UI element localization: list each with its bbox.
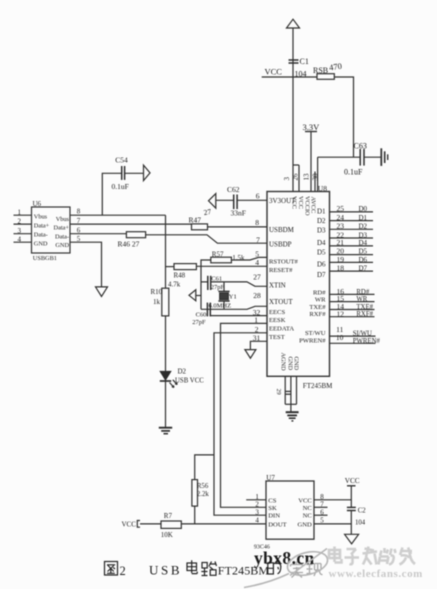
svg-text:5: 5 <box>320 517 324 525</box>
wire Vbus down to R10 <box>165 215 167 288</box>
U8 rotated power pin labels top <box>291 196 317 216</box>
IC U8 FT245BM body <box>267 192 330 377</box>
capacitor C60 27pF <box>192 303 210 327</box>
pin number 3 (rotated) <box>283 177 291 181</box>
port arrow left of C62 <box>209 194 216 209</box>
svg-text:EESK: EESK <box>269 317 286 324</box>
U6 inside labels right <box>54 216 70 249</box>
svg-text:RD#: RD# <box>356 289 369 296</box>
svg-text:8: 8 <box>77 208 81 216</box>
svg-text:29: 29 <box>275 389 281 395</box>
svg-text:Data-: Data- <box>55 234 69 241</box>
svg-text:WR: WR <box>315 297 326 304</box>
watermark 现 glyph grey <box>307 564 323 577</box>
U8 pin labels left column <box>269 197 299 341</box>
svg-text:D1: D1 <box>317 207 326 215</box>
svg-text:WR: WR <box>356 296 367 303</box>
resistor R56 2.2k <box>192 455 214 524</box>
earth ground below chip <box>286 412 299 421</box>
wire R57 to RSTOUT pin5 <box>231 257 267 260</box>
svg-text:D6: D6 <box>317 261 326 269</box>
pin number 30 (rotated) <box>312 173 320 181</box>
wire R46 to USBDP pin7 <box>146 235 267 243</box>
wire EEDATA pin2 to 93C46 DIN <box>214 333 267 515</box>
U8 pin labels right column <box>299 207 326 344</box>
svg-text:www.elecfans.com: www.elecfans.com <box>329 568 423 580</box>
caption 电 glyph <box>187 560 197 573</box>
watermark ybx8.cn <box>254 548 315 568</box>
svg-text:8: 8 <box>255 218 259 227</box>
svg-text:6: 6 <box>256 191 260 200</box>
svg-text:Vbus: Vbus <box>34 214 48 221</box>
svg-text:Y1: Y1 <box>229 294 237 301</box>
svg-text:USB: USB <box>149 562 182 577</box>
resistor RSB 470 <box>313 61 342 80</box>
svg-text:C54: C54 <box>115 155 128 164</box>
svg-text:USBDM: USBDM <box>269 226 295 234</box>
wire CS stub <box>246 499 266 501</box>
wire R47 to USBDM pin8 <box>208 226 268 228</box>
svg-text:DOUT: DOUT <box>268 521 286 528</box>
svg-text:R10: R10 <box>151 288 163 296</box>
svg-text:2: 2 <box>255 501 259 509</box>
svg-text:VCC: VCC <box>345 477 360 485</box>
U6 left pin stubs and numbers <box>14 208 32 243</box>
U7 left pin numbers <box>255 493 259 525</box>
part number FT245BM <box>303 382 333 390</box>
svg-text:GND: GND <box>298 521 313 528</box>
svg-text:D4: D4 <box>317 239 326 247</box>
svg-text:3: 3 <box>255 508 259 516</box>
wire C54 branch <box>102 173 121 215</box>
caption FT245BM <box>218 563 270 577</box>
svg-text:GND: GND <box>34 241 48 248</box>
svg-text:3: 3 <box>283 177 291 181</box>
svg-text:Data-: Data- <box>34 232 48 239</box>
svg-text:GND: GND <box>286 357 293 371</box>
wire 3.3V to chip VCCIO <box>310 132 312 192</box>
wire RSB to C63 <box>334 77 353 157</box>
watermark www.elecfans.com <box>329 568 423 580</box>
U8 right pin numbers <box>336 204 344 342</box>
svg-text:10: 10 <box>336 333 344 342</box>
svg-text:1.5k: 1.5k <box>232 254 245 262</box>
wire Data+ from U6 pin7 <box>70 223 192 225</box>
svg-text:3.3V: 3.3V <box>303 122 321 132</box>
net labels D0-D7 <box>359 205 368 272</box>
ground triangle below C2 <box>345 534 359 544</box>
svg-text:NC: NC <box>303 505 313 512</box>
svg-text:D2: D2 <box>317 217 326 225</box>
pin number 29 (rotated) <box>275 389 281 395</box>
svg-text:USBGB1: USBGB1 <box>33 255 57 262</box>
svg-text:0.1uF: 0.1uF <box>344 167 363 176</box>
U6 right pin numbers <box>77 208 81 243</box>
resistor R10 1k <box>151 288 169 316</box>
wire C63 branch into chip AVCC <box>317 157 319 191</box>
svg-text:1: 1 <box>18 208 22 216</box>
svg-text:1k: 1k <box>153 298 161 306</box>
svg-text:VCC: VCC <box>297 196 304 209</box>
capacitor C61 27pF <box>201 275 225 291</box>
wire R48 to RESET pin4 <box>196 265 267 267</box>
wire EESK pin1 to 93C46 SK <box>221 323 268 507</box>
svg-text:RXF#: RXF# <box>356 311 373 318</box>
U8 left pin numbers <box>253 191 261 342</box>
capacitor C62 33nF <box>216 185 246 218</box>
net labels SI/WU PWREN <box>353 331 381 345</box>
svg-text:D0: D0 <box>359 205 368 213</box>
svg-text:104: 104 <box>355 519 366 526</box>
svg-text:USB VCC: USB VCC <box>175 378 204 385</box>
port arrow left of crystal <box>189 290 201 301</box>
svg-text:TXE#: TXE# <box>309 304 326 311</box>
node VCC above C2 <box>345 477 360 486</box>
pin number 13 (rotated) <box>303 173 311 181</box>
svg-text:4: 4 <box>18 235 22 243</box>
svg-text:CS: CS <box>268 497 276 504</box>
wire LED to ground <box>165 381 167 427</box>
svg-text:EECS: EECS <box>269 309 285 316</box>
wire TEST pin31 to ground <box>250 341 267 349</box>
svg-text:VCC: VCC <box>265 67 283 77</box>
svg-text:33nF: 33nF <box>231 209 246 218</box>
op reference U8 <box>318 184 327 193</box>
svg-text:C63: C63 <box>354 141 367 150</box>
svg-text:C1: C1 <box>300 57 309 66</box>
svg-text:GND: GND <box>292 357 299 371</box>
svg-text:4.7k: 4.7k <box>168 280 181 288</box>
svg-text:Data+: Data+ <box>54 225 70 232</box>
svg-text:C62: C62 <box>227 185 240 194</box>
VCC power symbol top <box>287 19 300 28</box>
wire XTIN pin27 <box>211 282 267 286</box>
node VCC label <box>265 67 283 77</box>
svg-text:D6: D6 <box>359 256 368 264</box>
svg-text:D7: D7 <box>317 271 326 279</box>
svg-text:RXF#: RXF# <box>309 311 326 318</box>
watermark 电子发烧友 grey <box>329 547 415 565</box>
svg-text:VCC: VCC <box>122 521 137 529</box>
node 3.3V <box>303 122 321 132</box>
svg-text:R46 27: R46 27 <box>118 239 140 248</box>
wire Vbus from U6 pin8 <box>70 214 166 216</box>
wire C62 to 3V3OUT pin6 <box>237 199 267 201</box>
svg-text:EEDATA: EEDATA <box>269 325 294 332</box>
svg-text:DIN: DIN <box>268 513 280 520</box>
svg-text:TXE#: TXE# <box>356 304 373 311</box>
wire U7 GND pin5 <box>314 523 351 525</box>
capacitor C2 104 <box>347 507 366 526</box>
wire XTOUT pin28 <box>201 306 267 309</box>
svg-text:3: 3 <box>18 227 22 235</box>
caption 2 <box>120 564 126 578</box>
resistor R57 1.5k <box>211 250 245 262</box>
svg-text:AGND: AGND <box>280 353 287 372</box>
svg-text:0.1uF: 0.1uF <box>112 182 129 191</box>
ground right of C63 <box>381 148 387 166</box>
svg-text:27: 27 <box>253 273 261 282</box>
resistor R7 10K <box>140 512 181 539</box>
resistor R48 4.7k <box>166 264 197 289</box>
svg-text:27pF: 27pF <box>211 284 225 291</box>
svg-text:U7: U7 <box>266 474 275 482</box>
wire VCC vertical into chip top <box>292 28 294 192</box>
watermark swoosh ellipse <box>244 548 330 588</box>
U8 rotated ground pin labels bottom <box>280 353 300 372</box>
svg-text:30: 30 <box>312 173 320 181</box>
pin number 26 (rotated) <box>292 173 300 181</box>
svg-text:4: 4 <box>255 517 259 525</box>
svg-text:SK: SK <box>268 505 277 512</box>
wire U6 GND to ground <box>70 242 102 287</box>
svg-text:R48: R48 <box>174 271 186 279</box>
svg-text:VCC: VCC <box>298 497 312 504</box>
pin stubs top of chip <box>293 165 315 192</box>
svg-text:D7: D7 <box>359 265 368 273</box>
capacitor C1 <box>289 57 309 79</box>
U7 inside labels <box>268 497 312 528</box>
U6 inside labels left <box>34 214 50 248</box>
connector U6 body <box>32 200 71 262</box>
svg-text:ST/WU: ST/WU <box>305 330 326 337</box>
caption 图 glyph <box>105 562 118 576</box>
EEPROM U7 93C46 body <box>254 474 314 551</box>
svg-text:6.0MHZ: 6.0MHZ <box>209 303 232 310</box>
svg-text:U6: U6 <box>33 200 42 208</box>
wire R57 left to rail <box>201 260 211 309</box>
svg-text:Data+: Data+ <box>34 223 50 230</box>
svg-text:13: 13 <box>303 173 311 181</box>
svg-text:2: 2 <box>120 564 126 578</box>
svg-text:27pF: 27pF <box>192 319 206 326</box>
watermark 实 glyph grey <box>290 562 303 578</box>
svg-text:Vbus: Vbus <box>56 216 70 223</box>
svg-text:XTIN: XTIN <box>269 281 286 289</box>
svg-text:PWREN#: PWREN# <box>299 337 326 344</box>
svg-text:VCCIO: VCCIO <box>303 196 310 216</box>
crystal Y1 6.0MHZ <box>209 282 237 310</box>
svg-text:D2: D2 <box>359 223 368 231</box>
LED D2 <box>160 368 204 388</box>
capacitor C54 <box>112 155 144 190</box>
svg-text:VCC: VCC <box>291 196 298 209</box>
svg-text:R57: R57 <box>212 250 224 258</box>
svg-text:D3: D3 <box>317 227 326 235</box>
wire control RD WR TXE RXF <box>330 294 375 316</box>
port arrow right of C54 <box>144 165 151 181</box>
svg-text:TEST: TEST <box>269 334 285 341</box>
svg-text:26: 26 <box>292 173 300 181</box>
resistor R46 27 <box>118 232 146 249</box>
wire NC stubs <box>314 507 328 515</box>
wire data bus D0-D7 <box>330 212 374 271</box>
svg-text:28: 28 <box>253 291 261 300</box>
svg-text:D5: D5 <box>317 249 326 257</box>
wire SI/WU PWREN <box>330 336 376 343</box>
wire C2 to ground <box>350 511 352 535</box>
svg-text:27: 27 <box>203 207 212 217</box>
U7 right pin numbers <box>320 493 324 525</box>
svg-text:D1: D1 <box>359 214 368 222</box>
chip bottom ground pins <box>285 376 296 412</box>
svg-text:NC: NC <box>303 513 313 520</box>
svg-text:R56: R56 <box>197 483 209 490</box>
wire Data- from U6 pin6 <box>70 233 126 235</box>
caption 路 glyph <box>201 562 216 576</box>
svg-text:RSB: RSB <box>313 66 328 75</box>
ground triangle below TEST <box>245 350 256 359</box>
svg-text:D2: D2 <box>178 368 187 376</box>
svg-text:GND: GND <box>55 242 69 249</box>
wire VCC to C2 <box>350 486 352 507</box>
caption USB <box>149 562 182 577</box>
svg-text:470: 470 <box>328 61 342 73</box>
svg-text:RESET#: RESET# <box>269 267 293 274</box>
wire U7 VCC pin8 <box>314 499 351 501</box>
ground below LED <box>159 428 172 434</box>
svg-text:4: 4 <box>255 258 259 267</box>
svg-text:SI/WU: SI/WU <box>353 331 372 338</box>
svg-text:10K: 10K <box>161 531 173 539</box>
wire VCC rail horizontal <box>262 76 317 78</box>
node VCC left of R7 <box>122 521 141 529</box>
svg-text:D5: D5 <box>359 248 368 256</box>
svg-text:2.2k: 2.2k <box>197 491 209 498</box>
capacitor C63 <box>318 141 381 176</box>
svg-text:USBDP: USBDP <box>269 240 292 248</box>
resistor R47 27 <box>189 207 213 230</box>
svg-text:2: 2 <box>18 217 22 225</box>
wire R10 to LED <box>165 316 167 371</box>
svg-text:R7: R7 <box>164 512 173 520</box>
svg-text:PWREN#: PWREN# <box>353 338 381 345</box>
net labels RD WR TXE RXF <box>356 289 373 318</box>
svg-text:D4: D4 <box>359 239 368 247</box>
svg-text:C2: C2 <box>358 508 367 515</box>
svg-text:XTOUT: XTOUT <box>269 298 293 306</box>
svg-text:AVCC: AVCC <box>310 197 317 214</box>
wire R7 to DOUT <box>181 523 266 525</box>
svg-text:R47: R47 <box>189 215 202 224</box>
caption 的 glyph <box>268 561 281 575</box>
ground triangle below U6 <box>96 287 108 297</box>
svg-text:RSTOUT#: RSTOUT# <box>269 258 299 265</box>
wire EECS pin32 <box>210 315 267 317</box>
svg-text:C60: C60 <box>196 311 207 318</box>
svg-text:RD#: RD# <box>313 289 326 296</box>
svg-text:FT245BM: FT245BM <box>303 382 333 390</box>
